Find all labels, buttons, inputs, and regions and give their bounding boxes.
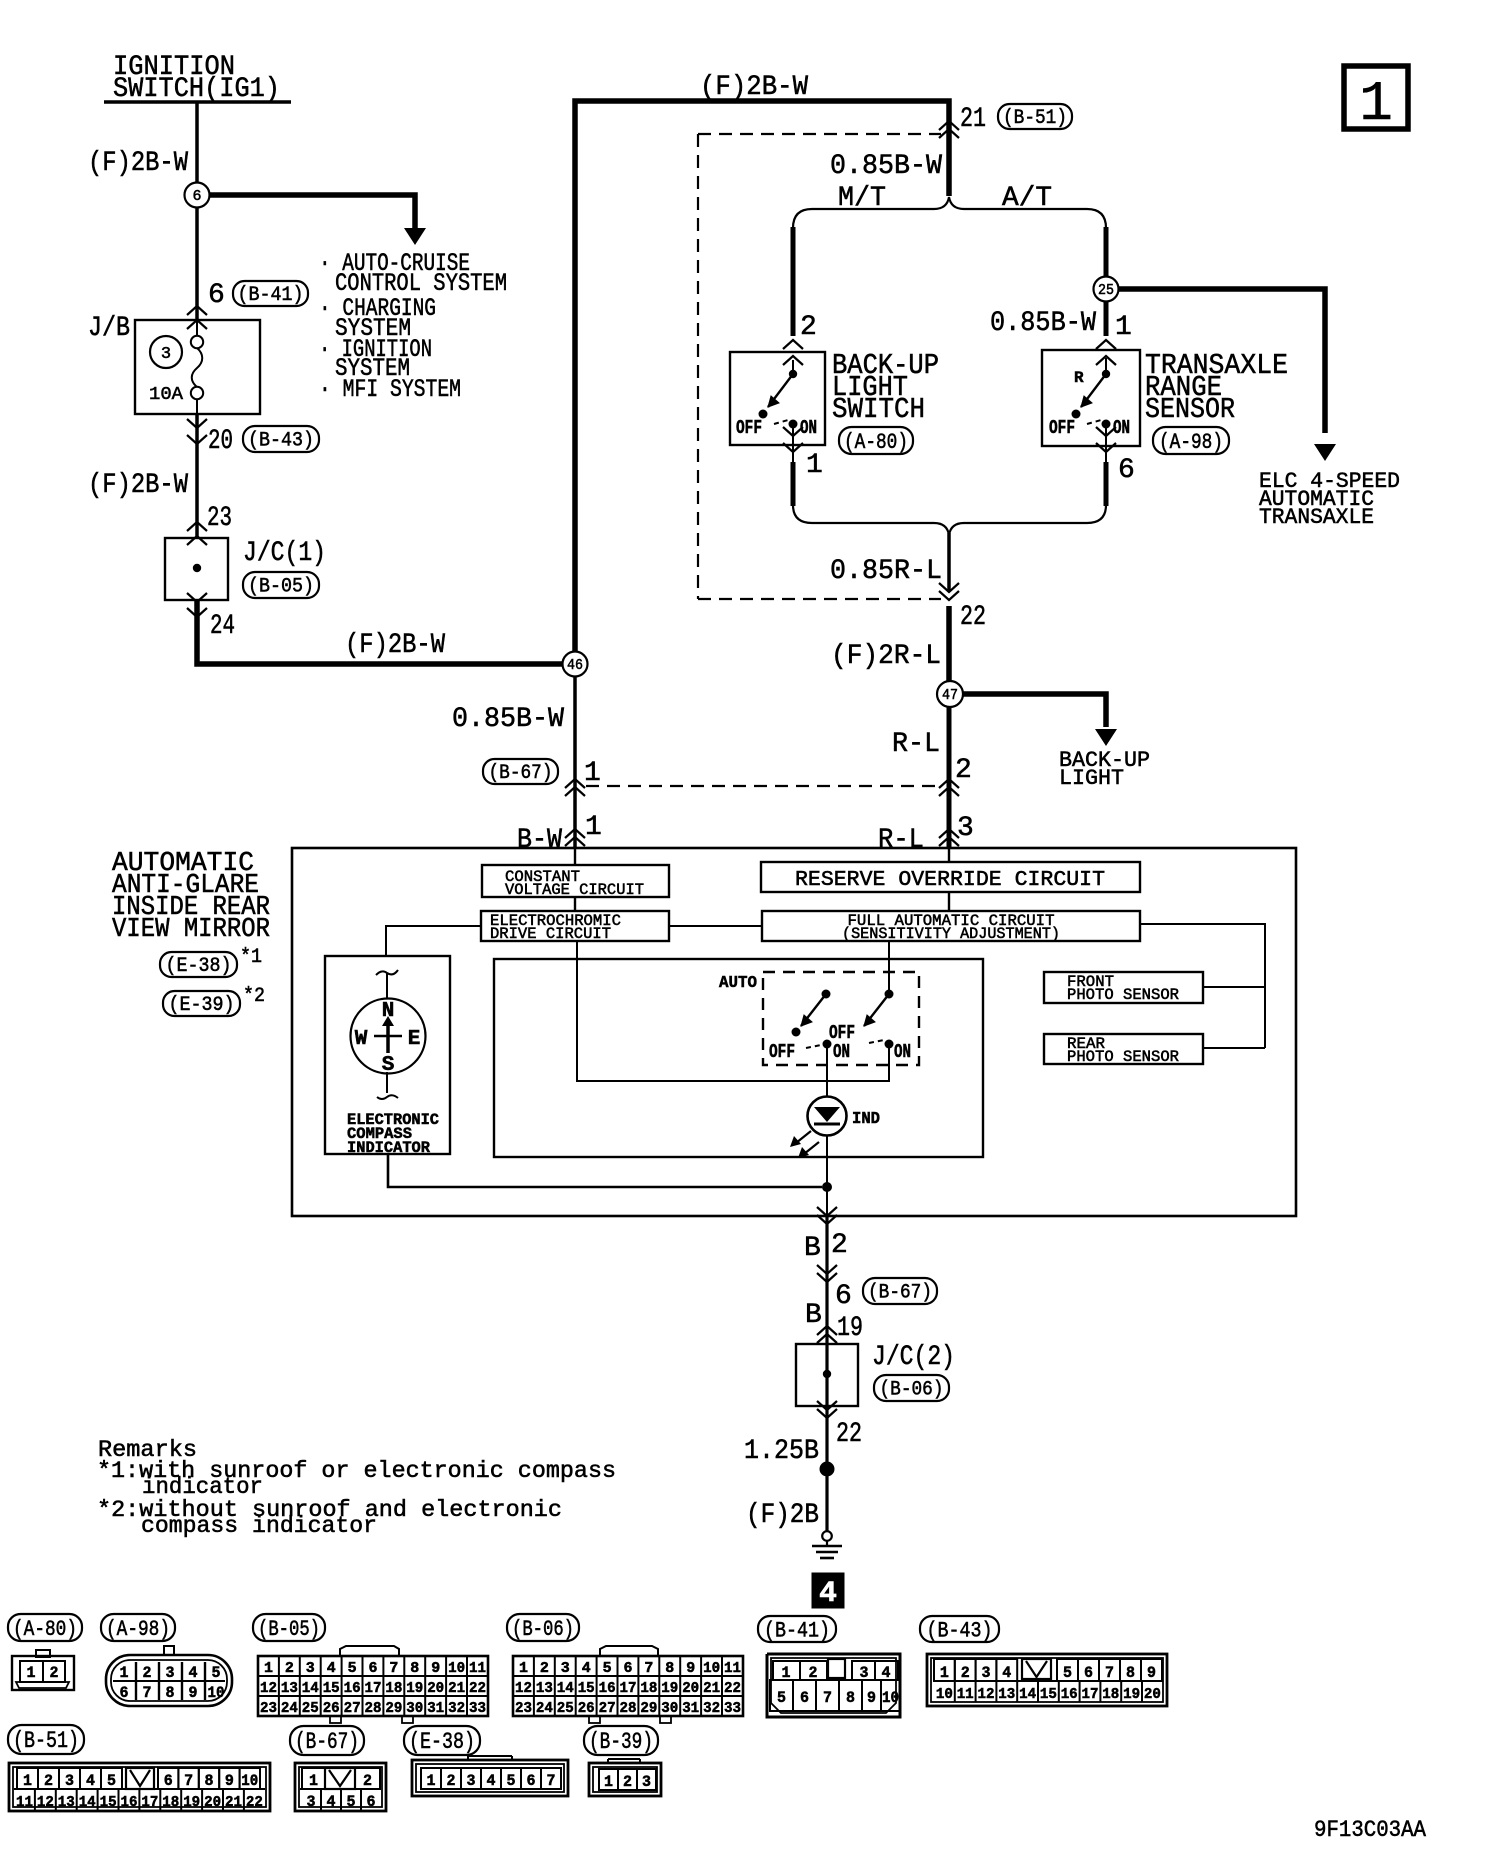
- svg-text:9: 9: [1147, 1664, 1156, 1682]
- svg-text:OFF: OFF: [736, 417, 762, 439]
- svg-text:18: 18: [385, 1680, 402, 1697]
- svg-text:10: 10: [882, 1689, 899, 1707]
- wire constant voltage to electrochromic: [574, 897, 576, 911]
- pin 22: [817, 1401, 837, 1410]
- connector A-80 pinout: [36, 1650, 50, 1657]
- svg-text:6: 6: [835, 1281, 852, 1312]
- svg-text:*2: *2: [243, 985, 265, 1008]
- svg-text:5: 5: [777, 1689, 786, 1707]
- svg-text:22: 22: [246, 1794, 263, 1811]
- svg-text:1: 1: [585, 812, 602, 843]
- svg-text:18: 18: [162, 1794, 179, 1811]
- svg-text:2: 2: [800, 312, 817, 343]
- svg-text:1: 1: [1359, 72, 1393, 136]
- indicator LED IND: [808, 1097, 847, 1136]
- svg-text:3: 3: [957, 813, 974, 844]
- svg-text:1: 1: [604, 1773, 613, 1791]
- svg-text:2: 2: [50, 1664, 59, 1682]
- svg-text:20: 20: [682, 1680, 699, 1697]
- svg-text:21: 21: [225, 1794, 242, 1811]
- svg-text:(B-43): (B-43): [248, 430, 314, 453]
- svg-text:5: 5: [1063, 1664, 1072, 1682]
- optional equipment dashed box: [698, 133, 941, 135]
- svg-text:13: 13: [281, 1680, 298, 1697]
- connector crossing B-67 pin 6: [817, 1265, 837, 1274]
- svg-text:· MFI SYSTEM: · MFI SYSTEM: [319, 375, 461, 404]
- svg-text:4: 4: [86, 1772, 95, 1790]
- svg-text:RESERVE OVERRIDE CIRCUIT: RESERVE OVERRIDE CIRCUIT: [795, 868, 1105, 892]
- wire (F)2B-W from ignition switch: [195, 102, 199, 183]
- svg-text:3: 3: [982, 1664, 991, 1682]
- svg-text:AUTO: AUTO: [719, 974, 757, 993]
- svg-text:28: 28: [365, 1700, 382, 1717]
- svg-text:7: 7: [644, 1660, 653, 1677]
- svg-text:2: 2: [285, 1660, 294, 1677]
- svg-text:25: 25: [1098, 282, 1114, 299]
- svg-text:(B-67): (B-67): [868, 1282, 932, 1305]
- svg-text:8: 8: [1126, 1664, 1135, 1682]
- svg-text:B-W: B-W: [517, 825, 562, 856]
- connector E-38 pinout: [467, 1756, 469, 1760]
- wire A/T branch: [1104, 227, 1109, 277]
- electronic compass indicator: [325, 956, 450, 1154]
- wire node25 to sensor: [1104, 301, 1109, 336]
- svg-text:(B-51): (B-51): [13, 1728, 79, 1754]
- svg-text:13: 13: [998, 1686, 1015, 1703]
- svg-text:47: 47: [942, 687, 958, 704]
- svg-text:2: 2: [955, 755, 972, 786]
- svg-text:4: 4: [582, 1660, 591, 1677]
- joint connector J/C(2) B-06: [796, 1344, 858, 1406]
- connector crossing A-80 pin 1: [792, 428, 794, 462]
- svg-text:3: 3: [642, 1773, 651, 1791]
- svg-text:(B-51): (B-51): [1003, 107, 1067, 130]
- svg-text:TRANSAXLE: TRANSAXLE: [1259, 505, 1374, 530]
- svg-text:24: 24: [210, 611, 235, 642]
- svg-text:8: 8: [846, 1689, 855, 1707]
- svg-text:7: 7: [143, 1684, 152, 1702]
- svg-text:32: 32: [703, 1700, 720, 1717]
- node 6: [195, 183, 199, 320]
- wire (F)2B-W trunk: [575, 101, 949, 664]
- svg-text:VIEW MIRROR: VIEW MIRROR: [112, 915, 270, 945]
- svg-text:5: 5: [603, 1660, 612, 1677]
- ground: [822, 1531, 832, 1541]
- svg-text:12: 12: [978, 1686, 995, 1703]
- transaxle range sensor A-98: [1042, 350, 1140, 446]
- wire electrochromic to compass: [386, 926, 481, 956]
- svg-text:6: 6: [164, 1772, 173, 1790]
- svg-text:0.85R-L: 0.85R-L: [830, 556, 942, 587]
- svg-text:1: 1: [427, 1772, 436, 1790]
- svg-text:7: 7: [1105, 1664, 1114, 1682]
- svg-text:19: 19: [183, 1794, 200, 1811]
- wire M/T to merge: [791, 462, 796, 506]
- wire reserve override to full automatic: [948, 892, 950, 911]
- svg-text:(SENSITIVITY ADJUSTMENT): (SENSITIVITY ADJUSTMENT): [842, 925, 1060, 943]
- svg-text:(B-41): (B-41): [764, 1618, 830, 1643]
- constant voltage circuit: [482, 865, 669, 897]
- svg-text:8: 8: [166, 1684, 175, 1702]
- svg-text:6: 6: [527, 1772, 536, 1790]
- connector label A-98: [101, 1614, 175, 1641]
- svg-text:10: 10: [448, 1660, 465, 1677]
- connector crossing A-98 pin 6: [1105, 428, 1107, 462]
- svg-text:9F13C03AA: 9F13C03AA: [1314, 1817, 1426, 1843]
- svg-text:18: 18: [1102, 1686, 1119, 1703]
- svg-text:9: 9: [431, 1660, 440, 1677]
- svg-text:DRIVE CIRCUIT: DRIVE CIRCUIT: [490, 925, 611, 943]
- splice junction: [820, 1462, 835, 1477]
- svg-text:32: 32: [448, 1700, 465, 1717]
- svg-text:0.85B-W: 0.85B-W: [830, 151, 942, 182]
- svg-text:PHOTO SENSOR: PHOTO SENSOR: [1067, 986, 1179, 1004]
- svg-text:2: 2: [44, 1772, 53, 1790]
- connector E-38 (*1): [160, 952, 237, 977]
- svg-text:6: 6: [624, 1660, 633, 1677]
- svg-text:19: 19: [837, 1313, 863, 1344]
- svg-text:21: 21: [960, 104, 986, 135]
- svg-text:R-L: R-L: [878, 825, 924, 856]
- svg-text:1: 1: [309, 1772, 318, 1790]
- svg-text:15: 15: [323, 1680, 340, 1697]
- svg-text:SENSOR: SENSOR: [1145, 393, 1235, 426]
- svg-text:(B-67): (B-67): [295, 1729, 359, 1755]
- junction: [822, 1182, 832, 1192]
- svg-text:2: 2: [961, 1664, 970, 1682]
- wire branch to other systems: [209, 195, 415, 228]
- svg-text:26: 26: [578, 1700, 595, 1717]
- svg-text:(B-05): (B-05): [248, 576, 314, 599]
- svg-text:22: 22: [836, 1419, 862, 1450]
- connector label E-38: [404, 1726, 480, 1755]
- svg-text:(B-05): (B-05): [258, 1617, 320, 1642]
- svg-text:6: 6: [120, 1684, 129, 1702]
- connector B-05 pinout: [340, 1646, 399, 1656]
- svg-text:20: 20: [204, 1794, 221, 1811]
- wire M/T branch: [791, 227, 796, 336]
- wire 0.85R-L: [947, 533, 951, 592]
- wire into constant voltage circuit: [574, 847, 576, 865]
- svg-text:9: 9: [225, 1772, 234, 1790]
- svg-text:(B-06): (B-06): [880, 1379, 944, 1402]
- switch unit box: [494, 959, 983, 1157]
- svg-text:11: 11: [469, 1660, 486, 1677]
- svg-text:1.25B: 1.25B: [744, 1436, 819, 1467]
- ground reference 4: [812, 1573, 844, 1608]
- svg-text:3: 3: [166, 1664, 175, 1682]
- wire to back-up light: [963, 694, 1106, 727]
- svg-text:17: 17: [620, 1680, 637, 1697]
- svg-text:20: 20: [427, 1680, 444, 1697]
- M/T A/T merge brace: [793, 505, 1106, 535]
- svg-text:30: 30: [661, 1700, 678, 1717]
- svg-text:(F)2B-W: (F)2B-W: [345, 630, 445, 661]
- connector A-98 pinout: [164, 1646, 174, 1655]
- svg-text:17: 17: [141, 1794, 158, 1811]
- svg-text:4: 4: [189, 1664, 198, 1682]
- connector B-39 pinout: [607, 1759, 609, 1763]
- node 25: [1094, 277, 1119, 302]
- svg-text:W: W: [355, 1028, 368, 1051]
- svg-text:PHOTO SENSOR: PHOTO SENSOR: [1067, 1048, 1179, 1066]
- svg-text:3: 3: [307, 1793, 316, 1811]
- wire (F)2B-W to J/C(1): [195, 414, 199, 538]
- svg-text:7: 7: [823, 1689, 832, 1707]
- svg-text:25: 25: [302, 1700, 319, 1717]
- svg-text:23: 23: [207, 503, 232, 534]
- svg-text:24: 24: [281, 1700, 298, 1717]
- connector B-51 pinout: [9, 1763, 270, 1811]
- svg-text:2: 2: [540, 1660, 549, 1677]
- svg-text:17: 17: [1082, 1686, 1099, 1703]
- svg-text:(A-98): (A-98): [1159, 430, 1223, 455]
- svg-text:18: 18: [640, 1680, 657, 1697]
- svg-text:0.85B-W: 0.85B-W: [452, 704, 564, 735]
- svg-text:2: 2: [831, 1230, 848, 1261]
- svg-text:21: 21: [448, 1680, 465, 1697]
- wire B-W to mirror: [573, 677, 577, 847]
- svg-text:9: 9: [867, 1689, 876, 1707]
- svg-text:3: 3: [65, 1772, 74, 1790]
- svg-text:*1: *1: [240, 946, 262, 969]
- svg-text:22: 22: [469, 1680, 486, 1697]
- svg-text:28: 28: [620, 1700, 637, 1717]
- svg-text:31: 31: [682, 1700, 699, 1717]
- svg-text:12: 12: [37, 1794, 54, 1811]
- svg-text:16: 16: [599, 1680, 616, 1697]
- connector crossing A-98 pin 1: [1096, 340, 1116, 349]
- svg-text:OFF: OFF: [1049, 417, 1075, 439]
- svg-text:2: 2: [143, 1664, 152, 1682]
- wire electrochromic to full automatic: [669, 925, 762, 927]
- svg-text:14: 14: [302, 1680, 319, 1697]
- svg-text:VOLTAGE CIRCUIT: VOLTAGE CIRCUIT: [505, 881, 644, 899]
- svg-text:30: 30: [406, 1700, 423, 1717]
- rear photo sensor: [1044, 1034, 1203, 1064]
- svg-text:J/B: J/B: [88, 313, 130, 344]
- svg-text:11: 11: [724, 1660, 741, 1677]
- electrochromic drive circuit: [481, 911, 669, 941]
- svg-text:5: 5: [212, 1664, 221, 1682]
- pin 24: [187, 593, 207, 602]
- svg-text:27: 27: [599, 1700, 616, 1717]
- dashed connector link line: [586, 785, 941, 787]
- svg-text:2: 2: [447, 1772, 456, 1790]
- connector label A-80: [8, 1614, 82, 1641]
- svg-text:J/C(1): J/C(1): [243, 538, 326, 569]
- svg-text:4: 4: [819, 1577, 837, 1611]
- svg-text:(B-39): (B-39): [589, 1729, 653, 1755]
- svg-text:5: 5: [107, 1772, 116, 1790]
- svg-text:(F)2B: (F)2B: [746, 1500, 819, 1531]
- svg-text:E: E: [408, 1028, 421, 1051]
- svg-text:27: 27: [344, 1700, 361, 1717]
- svg-text:1: 1: [1115, 312, 1132, 343]
- svg-text:(A-98): (A-98): [106, 1617, 170, 1642]
- svg-text:0.85B-W: 0.85B-W: [990, 308, 1096, 339]
- svg-text:33: 33: [724, 1700, 741, 1717]
- svg-text:13: 13: [58, 1794, 75, 1811]
- wire full automatic to switch S2: [888, 941, 890, 994]
- full automatic circuit (sensitivity adjustment): [762, 911, 1140, 941]
- svg-text:8: 8: [205, 1772, 214, 1790]
- wire S2 to electrochromic return: [577, 941, 889, 1081]
- connector label B-39: [584, 1726, 658, 1755]
- node 47: [937, 681, 963, 707]
- svg-text:(F)2B-W: (F)2B-W: [88, 470, 188, 501]
- svg-text:1: 1: [27, 1664, 36, 1682]
- connector crossing mirror pin 2: [817, 1207, 837, 1216]
- svg-text:20: 20: [1144, 1686, 1161, 1703]
- svg-text:2: 2: [623, 1773, 632, 1791]
- svg-text:(B-06): (B-06): [512, 1617, 574, 1642]
- back-up light switch A-80: [730, 352, 825, 445]
- connector crossing mirror pin 3: [939, 829, 959, 838]
- wire B to ground: [825, 1216, 828, 1532]
- svg-text:14: 14: [79, 1794, 96, 1811]
- svg-text:10: 10: [936, 1686, 953, 1703]
- svg-text:20: 20: [208, 426, 233, 457]
- svg-text:6: 6: [369, 1660, 378, 1677]
- svg-text:(E-38): (E-38): [166, 955, 232, 978]
- svg-text:19: 19: [1123, 1686, 1140, 1703]
- svg-text:12: 12: [260, 1680, 277, 1697]
- svg-text:1: 1: [806, 450, 823, 481]
- svg-text:1: 1: [940, 1664, 949, 1682]
- wire into reserve override circuit: [948, 847, 950, 862]
- svg-text:LIGHT: LIGHT: [1059, 766, 1124, 791]
- svg-text:7: 7: [389, 1660, 398, 1677]
- svg-text:24: 24: [536, 1700, 553, 1717]
- svg-text:29: 29: [385, 1700, 402, 1717]
- svg-text:22: 22: [960, 602, 986, 633]
- svg-text:(B-43): (B-43): [927, 1618, 993, 1643]
- connector B-43 pinout: [927, 1654, 1167, 1706]
- svg-text:19: 19: [406, 1680, 423, 1697]
- svg-text:5: 5: [507, 1772, 516, 1790]
- svg-text:1: 1: [23, 1772, 32, 1790]
- connector crossing A-80 pin 2: [783, 340, 803, 349]
- svg-text:14: 14: [557, 1680, 574, 1697]
- connector label B-05: [253, 1614, 325, 1641]
- connector label B-41: [758, 1616, 836, 1642]
- svg-text:46: 46: [567, 657, 583, 674]
- svg-text:3: 3: [561, 1660, 570, 1677]
- connector crossing B-67 pin 1: [483, 759, 558, 784]
- connector crossing B-51 pin 21: [939, 121, 959, 130]
- svg-text:22: 22: [724, 1680, 741, 1697]
- svg-text:6: 6: [208, 280, 225, 311]
- svg-text:3: 3: [161, 345, 171, 364]
- switch S2: [885, 990, 894, 999]
- svg-text:6: 6: [192, 188, 201, 205]
- connector E-39 (*2): [163, 991, 240, 1016]
- svg-text:4: 4: [1002, 1664, 1011, 1682]
- svg-text:11: 11: [16, 1794, 33, 1811]
- svg-text:10: 10: [241, 1772, 258, 1790]
- svg-text:17: 17: [365, 1680, 382, 1697]
- wire S1 to indicator LED: [826, 1044, 828, 1097]
- svg-text:1: 1: [519, 1660, 528, 1677]
- svg-text:6: 6: [1084, 1664, 1093, 1682]
- svg-text:11: 11: [957, 1686, 974, 1703]
- connector label B-43: [920, 1616, 999, 1642]
- svg-text:6: 6: [1118, 455, 1135, 486]
- svg-text:2: 2: [363, 1772, 372, 1790]
- svg-text:16: 16: [1061, 1686, 1078, 1703]
- svg-text:16: 16: [121, 1794, 138, 1811]
- svg-text:8: 8: [665, 1660, 674, 1677]
- svg-text:10: 10: [703, 1660, 720, 1677]
- svg-text:25: 25: [557, 1700, 574, 1717]
- svg-text:5: 5: [347, 1793, 356, 1811]
- svg-text:1: 1: [264, 1660, 273, 1677]
- front photo sensor: [1044, 972, 1203, 1003]
- automatic anti-glare inside rear view mirror box: [292, 848, 1296, 1216]
- svg-text:(E-39): (E-39): [169, 994, 235, 1017]
- connector label B-51: [8, 1725, 84, 1754]
- svg-text:J/C(2): J/C(2): [872, 1342, 955, 1373]
- svg-text:26: 26: [323, 1700, 340, 1717]
- svg-text:15: 15: [100, 1794, 117, 1811]
- svg-text:B: B: [804, 1233, 821, 1264]
- wire (F)2R-L: [946, 606, 952, 682]
- svg-text:1: 1: [120, 1664, 129, 1682]
- svg-text:(F)2R-L: (F)2R-L: [831, 641, 941, 672]
- connector B-06 pinout: [600, 1646, 658, 1656]
- joint connector J/C(1) B-05: [165, 538, 228, 600]
- wire LED to ground bus: [826, 1135, 828, 1216]
- svg-text:(A-80): (A-80): [13, 1617, 77, 1642]
- page index box 1: [1344, 66, 1408, 129]
- svg-text:(E-38): (E-38): [409, 1729, 475, 1755]
- svg-text:9: 9: [686, 1660, 695, 1677]
- svg-text:4: 4: [487, 1772, 496, 1790]
- svg-text:21: 21: [703, 1680, 720, 1697]
- svg-text:4: 4: [327, 1660, 336, 1677]
- svg-text:4: 4: [327, 1793, 336, 1811]
- svg-text:OFF: OFF: [769, 1041, 795, 1063]
- connector label B-67: [290, 1726, 364, 1755]
- connector B-67 pinout: [295, 1763, 386, 1811]
- svg-text:3: 3: [306, 1660, 315, 1677]
- wire A/T to merge: [1104, 462, 1109, 506]
- svg-text:SWITCH: SWITCH: [832, 393, 925, 426]
- svg-text:R-L: R-L: [892, 729, 940, 760]
- connector crossing B-43 pin 20: [187, 419, 207, 428]
- svg-text:ON: ON: [833, 1041, 850, 1063]
- reserve override circuit: [761, 862, 1140, 892]
- svg-text:(A-80): (A-80): [844, 430, 908, 455]
- svg-text:6: 6: [367, 1793, 376, 1811]
- svg-text:10A: 10A: [149, 385, 183, 405]
- svg-text:7: 7: [547, 1772, 556, 1790]
- svg-text:9: 9: [189, 1684, 198, 1702]
- svg-text:14: 14: [1019, 1686, 1036, 1703]
- connector crossing B-06 pin 19: [817, 1326, 837, 1335]
- svg-text:compass indicator: compass indicator: [141, 1513, 377, 1539]
- connector B-41 pinout: [767, 1654, 900, 1717]
- connector crossing B-67 pin 2: [939, 779, 959, 788]
- connector crossing pin 22: [939, 583, 959, 592]
- svg-text:1: 1: [584, 758, 601, 789]
- svg-text:6: 6: [800, 1689, 809, 1707]
- wire full automatic to photo sensors: [1140, 924, 1265, 1048]
- svg-text:(B-41): (B-41): [238, 284, 304, 307]
- switch S1: [822, 990, 831, 999]
- svg-text:23: 23: [260, 1700, 277, 1717]
